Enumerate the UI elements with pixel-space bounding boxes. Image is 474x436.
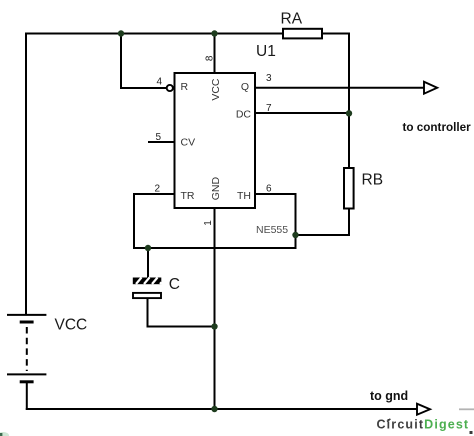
svg-text:DC: DC bbox=[236, 108, 252, 120]
wire pin 5 CV stub bbox=[148, 141, 174, 143]
svg-text:TH: TH bbox=[237, 190, 251, 202]
svg-text:R: R bbox=[181, 81, 189, 93]
svg-text:3: 3 bbox=[266, 73, 272, 84]
output arrow to controller bbox=[424, 82, 437, 94]
svg-text:7: 7 bbox=[266, 103, 272, 114]
wire bottom ground rail bbox=[26, 408, 417, 410]
svg-text:to controller: to controller bbox=[403, 121, 472, 134]
wire capacitor top lead bbox=[147, 248, 149, 278]
wire reset branch vertical bbox=[120, 34, 122, 89]
node junction top rail pin 8 bbox=[211, 30, 217, 36]
wire capacitor bottom lead bbox=[147, 299, 149, 328]
wire battery negative to bottom rail bbox=[26, 382, 28, 410]
wire pin 7 DC to RB node bbox=[254, 112, 350, 114]
svg-text:VCC: VCC bbox=[55, 317, 88, 334]
wire pin 6 TH right bbox=[254, 193, 296, 195]
wire left rail from top to battery bbox=[25, 33, 27, 316]
wire RB bottom to TH node bbox=[296, 234, 351, 236]
watermark corner mark bbox=[470, 431, 473, 434]
output arrow to gnd bbox=[417, 404, 430, 415]
battery B1 cell 2 positive plate bbox=[7, 373, 46, 375]
node junction capacitor bottom / gnd bbox=[211, 323, 217, 329]
wire TH vertical down bbox=[295, 193, 297, 249]
svg-text:VCC: VCC bbox=[210, 78, 222, 101]
wire TR-TH bottom link bbox=[133, 247, 297, 249]
capacitor C top plate (hatched) bbox=[133, 278, 162, 285]
watermark green mark bottom left bbox=[0, 432, 9, 436]
wire capacitor to ground net bbox=[147, 326, 215, 328]
svg-text:TR: TR bbox=[181, 190, 195, 202]
svg-text:RA: RA bbox=[281, 11, 303, 28]
wire pin 3 Q output bbox=[254, 87, 424, 89]
wire reset branch horizontal to pin 4 bbox=[120, 87, 167, 89]
wire RA right end down to RB bbox=[348, 33, 350, 169]
svg-text:NE555: NE555 bbox=[256, 224, 288, 236]
battery B1 cell 1 negative plate bbox=[20, 321, 34, 324]
pin 4 inversion bubble bbox=[167, 85, 173, 91]
svg-text:1: 1 bbox=[203, 220, 214, 226]
watermark i accent bbox=[387, 419, 390, 422]
svg-text:CV: CV bbox=[181, 136, 196, 148]
svg-text:5: 5 bbox=[155, 132, 161, 143]
resistor RA bbox=[283, 29, 322, 39]
svg-text:RB: RB bbox=[362, 172, 384, 189]
capacitor C bottom plate bbox=[133, 293, 161, 298]
node junction capacitor top bbox=[145, 245, 151, 251]
op-amp U1 IC body NE555 bbox=[175, 73, 256, 208]
wire pin 1 GND vertical bbox=[214, 208, 216, 410]
svg-text:2: 2 bbox=[154, 184, 160, 195]
wire pin 8 stub bbox=[214, 34, 216, 75]
svg-text:Q: Q bbox=[241, 81, 249, 93]
svg-text:4: 4 bbox=[156, 77, 162, 88]
svg-text:C: C bbox=[169, 276, 180, 293]
wire top rail VCC bbox=[26, 33, 349, 35]
battery B1 cell 2 negative plate bbox=[20, 380, 34, 383]
node junction DC / RB bbox=[346, 110, 352, 116]
battery B1 cell 1 positive plate bbox=[7, 314, 46, 316]
svg-text:to gnd: to gnd bbox=[370, 389, 408, 403]
battery dashed link bbox=[26, 327, 28, 371]
decorative gray line right edge bbox=[459, 408, 474, 410]
node junction bottom rail bbox=[211, 406, 217, 412]
wire pin 2 TR left bbox=[134, 193, 174, 195]
wire RB bottom down bbox=[348, 209, 350, 236]
resistor RB bbox=[344, 168, 354, 209]
svg-text:6: 6 bbox=[266, 184, 272, 195]
svg-text:U1: U1 bbox=[256, 43, 276, 60]
node junction TH / RB bottom bbox=[292, 232, 298, 238]
node junction top rail reset branch bbox=[118, 30, 124, 36]
wire TR vertical down bbox=[133, 193, 135, 249]
svg-text:8: 8 bbox=[205, 55, 216, 61]
svg-text:GND: GND bbox=[210, 177, 222, 201]
